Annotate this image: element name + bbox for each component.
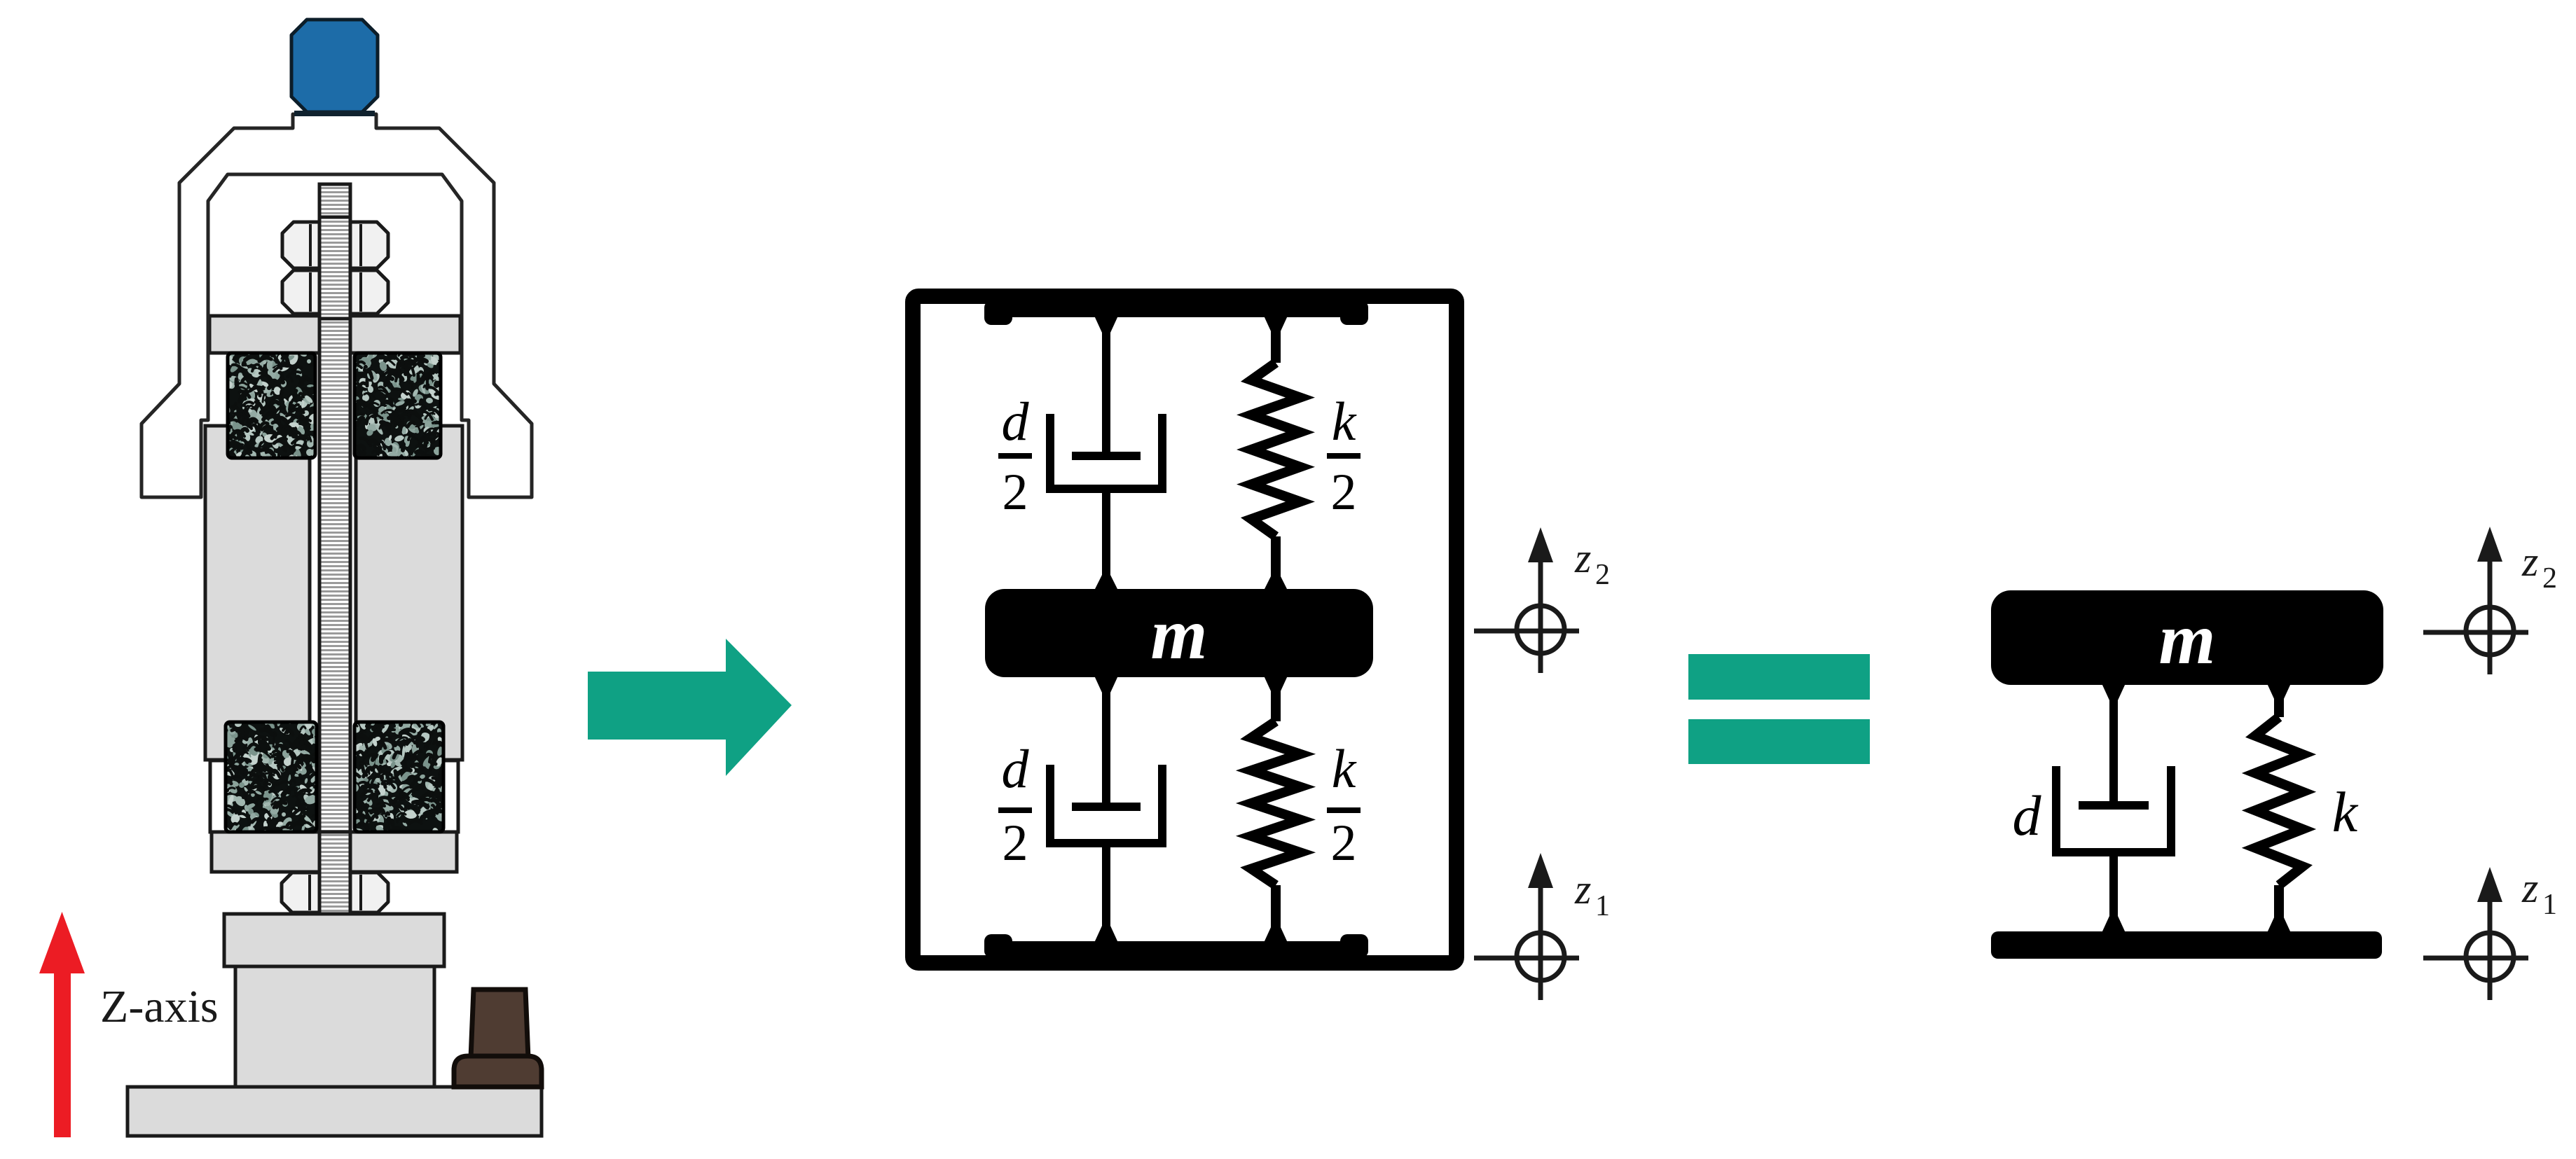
svg-text:z: z — [1574, 866, 1591, 912]
svg-text:1: 1 — [1595, 890, 1610, 922]
svg-text:d: d — [1002, 738, 1030, 799]
svg-text:z: z — [1574, 535, 1591, 581]
svg-text:k: k — [2332, 780, 2359, 844]
svg-text:Z-axis: Z-axis — [100, 981, 219, 1032]
svg-text:z: z — [2521, 539, 2538, 585]
svg-text:2: 2 — [1003, 464, 1028, 521]
svg-text:2: 2 — [2542, 562, 2557, 595]
svg-text:2: 2 — [1331, 814, 1357, 872]
svg-text:d: d — [1002, 391, 1030, 452]
svg-text:k: k — [1332, 738, 1357, 799]
svg-text:2: 2 — [1331, 464, 1357, 521]
svg-text:2: 2 — [1595, 559, 1610, 591]
svg-text:d: d — [2013, 784, 2042, 847]
svg-text:k: k — [1332, 391, 1357, 452]
svg-text:2: 2 — [1003, 814, 1028, 872]
svg-text:m: m — [1151, 594, 1208, 674]
svg-text:1: 1 — [2542, 889, 2557, 921]
svg-text:z: z — [2521, 865, 2538, 911]
svg-text:m: m — [2159, 599, 2216, 679]
